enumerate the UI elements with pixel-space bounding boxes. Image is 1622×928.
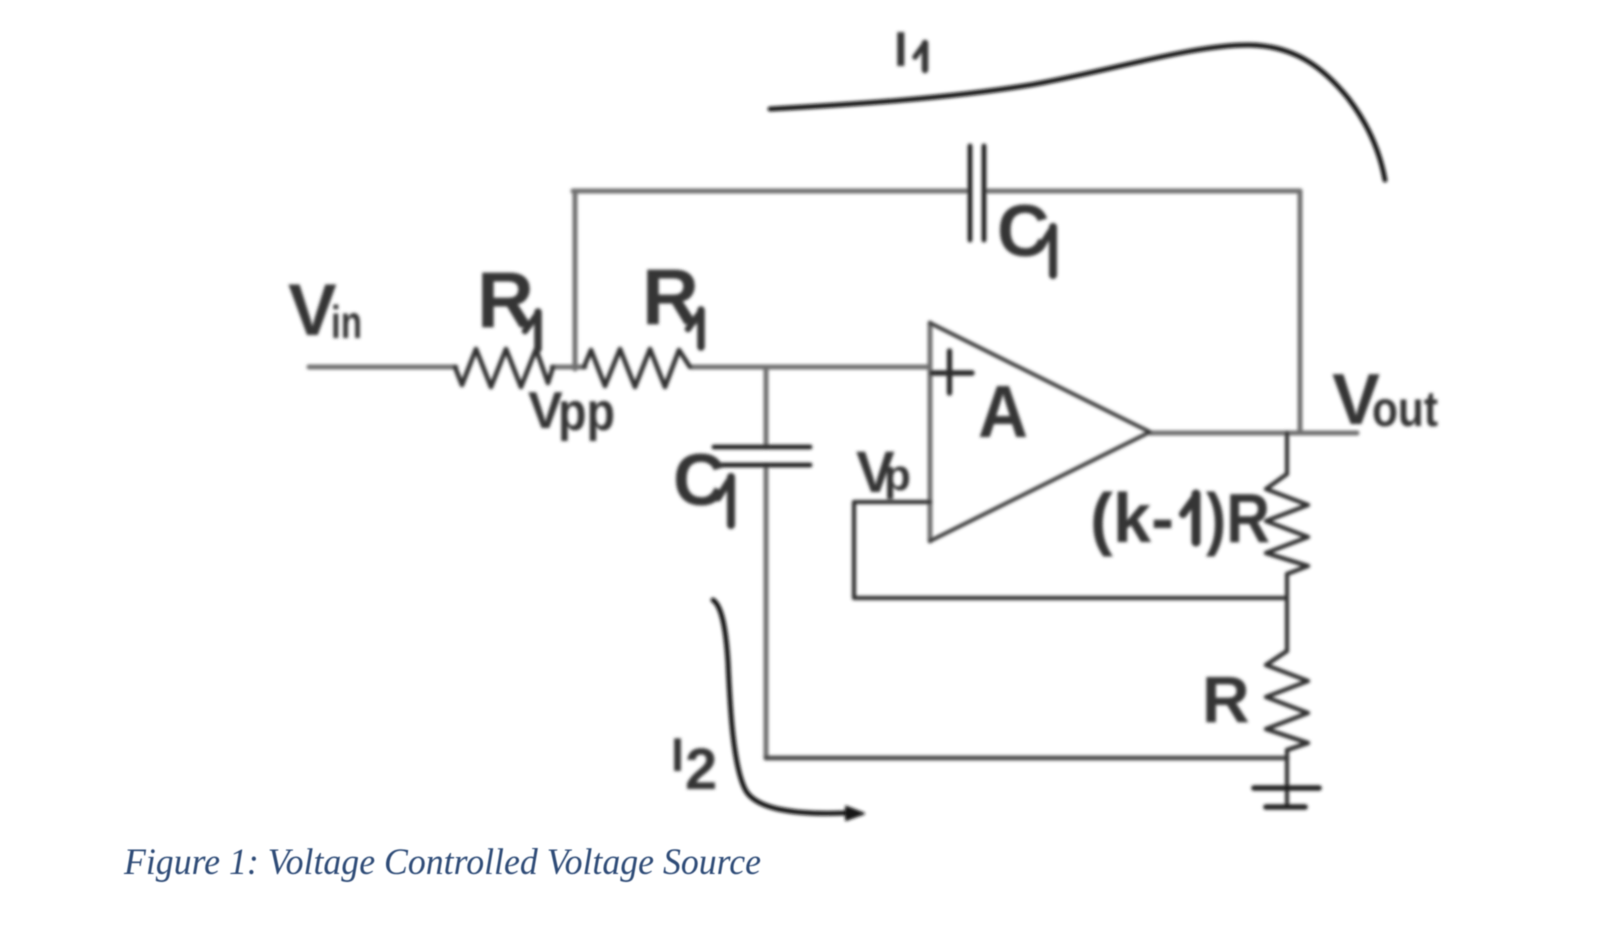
resistor R	[1266, 651, 1308, 750]
label R1 (first)	[477, 255, 538, 349]
svg-text:)R: )R	[1206, 479, 1270, 557]
label (k-1)R value	[1090, 479, 1270, 557]
svg-text:2: 2	[685, 737, 717, 802]
wire through divider junction	[1285, 574, 1289, 651]
svg-text:p: p	[884, 451, 911, 500]
wire from + input node down to capacitor C1 top plate	[764, 367, 769, 447]
op-amp + input marker	[932, 351, 972, 393]
resistor (k-1)R	[1266, 474, 1308, 574]
label Vout	[1332, 360, 1438, 440]
svg-text:I: I	[671, 728, 684, 781]
wire feedback loop from inverting input to divider node	[854, 502, 1287, 598]
label node Vpp	[528, 382, 615, 442]
label R1 (second)	[642, 252, 701, 347]
capacitor C1 (feedback, top) plates	[970, 146, 984, 240]
wire vertical from node Vpp up to top rail	[573, 191, 578, 369]
svg-text:V: V	[288, 270, 337, 351]
current arrow I2 curve	[713, 600, 864, 820]
label R value	[1202, 662, 1250, 736]
svg-text:pp: pp	[558, 382, 615, 442]
wire top rail left of C1	[573, 189, 968, 194]
wire right rail down to Vout	[1298, 191, 1303, 433]
svg-text:C: C	[673, 440, 726, 521]
svg-text:I: I	[894, 23, 908, 77]
label op-amp A	[978, 370, 1028, 453]
label current I1	[894, 23, 925, 77]
op-amp A triangle	[930, 323, 1150, 541]
label Vin	[288, 270, 362, 351]
svg-text:R: R	[1202, 662, 1250, 736]
wire from capacitor C1 bottom plate down	[764, 465, 769, 758]
node Vpp junction wire between R1 resistors	[552, 365, 585, 370]
label current I2	[671, 728, 717, 802]
caption Figure 1	[123, 842, 761, 883]
svg-text:C: C	[997, 191, 1050, 272]
label C1 (top feedback capacitor)	[997, 191, 1053, 275]
wire input from Vin	[309, 365, 456, 370]
current arrow I1 curve	[770, 45, 1385, 180]
wire from Vout node down to (k-1)R	[1285, 433, 1289, 474]
ground	[1254, 788, 1319, 807]
wire bottom rail	[766, 756, 1287, 761]
wire from second R1 to op-amp + input	[692, 365, 930, 370]
svg-text:in: in	[331, 296, 362, 348]
svg-text:(k-: (k-	[1090, 479, 1174, 557]
label C1 (middle shunt capacitor)	[673, 440, 731, 525]
wire output from op-amp to Vout	[1150, 431, 1357, 436]
wire from R to ground	[1285, 750, 1289, 806]
wire top rail right of C1	[986, 189, 1300, 194]
capacitor C1 (shunt, middle) plates	[714, 447, 810, 465]
svg-text:Figure 1: Voltage Controlled V: Figure 1: Voltage Controlled Voltage Sou…	[123, 842, 761, 883]
resistor R1 (first, input)	[455, 349, 553, 387]
label node Vp	[856, 440, 911, 505]
svg-text:out: out	[1372, 381, 1438, 437]
resistor R1 (second)	[584, 349, 690, 387]
svg-text:A: A	[978, 370, 1028, 453]
